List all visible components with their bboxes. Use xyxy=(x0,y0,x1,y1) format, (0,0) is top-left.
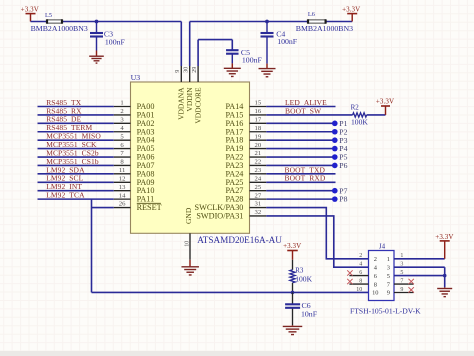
node P4 port dot xyxy=(332,146,338,152)
ground (C6) xyxy=(283,326,303,334)
svg-text:+3.3V: +3.3V xyxy=(376,98,394,106)
U3 right pin names PA14-PA31 xyxy=(195,102,244,220)
U3 left pins 1-8,11-14,26 xyxy=(114,107,131,208)
wire SWCLK net: U3 pin 31 to J4 pin 2 xyxy=(266,208,368,259)
wire net MCP3551_CS1b to U3 pin 8 xyxy=(38,164,114,166)
svg-text:23: 23 xyxy=(255,167,262,174)
svg-text:10: 10 xyxy=(356,287,362,293)
svg-text:LM92 TCA: LM92 TCA xyxy=(46,191,85,200)
svg-text:18: 18 xyxy=(255,125,262,132)
resistor R2 100K xyxy=(353,113,367,117)
U3 top power pins 9,30,29 (VDDANA,VDDIN,VDDCORE) xyxy=(181,66,198,82)
no-connect X on J4 pin 6 xyxy=(347,270,352,275)
svg-text:9: 9 xyxy=(175,70,181,73)
svg-text:BMB2A1000BN3: BMB2A1000BN3 xyxy=(296,24,353,33)
svg-text:8: 8 xyxy=(374,281,377,288)
node P8 port dot xyxy=(332,196,338,202)
svg-text:10nF: 10nF xyxy=(301,310,318,319)
svg-text:GND: GND xyxy=(184,207,193,224)
svg-text:12: 12 xyxy=(119,175,126,182)
svg-text:+3.3V: +3.3V xyxy=(283,242,301,250)
svg-text:24: 24 xyxy=(255,175,262,182)
capacitor C6 10nF xyxy=(292,292,294,326)
svg-text:100nF: 100nF xyxy=(242,55,263,64)
svg-text:15: 15 xyxy=(255,100,262,107)
capacitor C3 100nF xyxy=(96,22,98,57)
svg-text:17: 17 xyxy=(255,117,262,124)
ground (C4) xyxy=(259,69,276,77)
junction node C4 tap xyxy=(265,20,269,24)
ground (C5) xyxy=(224,68,241,76)
node P3 port dot xyxy=(332,137,338,143)
svg-text:R2: R2 xyxy=(351,104,360,112)
junction node J4 pin 5 / ground xyxy=(443,274,447,278)
wire net RS485_TX to U3 pin 1 xyxy=(38,106,114,108)
wire port P6 from U3 xyxy=(266,164,335,166)
wire net MCP3551_CS2b to U3 pin 7 xyxy=(38,156,114,158)
J4 pin 9 no-connect stub xyxy=(394,292,414,294)
svg-text:RESET: RESET xyxy=(137,203,162,212)
power +3.3V (J4 pin 1) xyxy=(435,233,453,259)
node P7 port dot xyxy=(332,188,338,194)
J4 pin 6 no-connect stub xyxy=(349,275,368,277)
U3 left pin numbers xyxy=(119,100,126,208)
wire port P3 from U3 xyxy=(266,139,335,141)
svg-text:100nF: 100nF xyxy=(277,37,298,46)
capacitor C4 100nF xyxy=(266,22,268,69)
svg-text:BMB2A1000BN3: BMB2A1000BN3 xyxy=(31,24,88,33)
junction node C3 tap xyxy=(95,20,99,24)
wire port P7 from U3 xyxy=(266,190,335,192)
wire LED_ALIVE from U3 pin 15 xyxy=(266,106,335,108)
J4 outside pin numbers xyxy=(356,253,403,293)
svg-text:20: 20 xyxy=(255,142,262,149)
wire net LM92_TCA to U3 pin 14 xyxy=(38,198,114,200)
svg-text:FTSH-105-01-L-DV-K: FTSH-105-01-L-DV-K xyxy=(350,306,421,315)
svg-text:30: 30 xyxy=(184,67,190,73)
inductor L6 BMB2A1000BN3 xyxy=(307,19,326,24)
svg-text:L5: L5 xyxy=(45,12,52,19)
wire port P2 from U3 xyxy=(266,131,335,133)
power +3.3V (R2 pull-up) xyxy=(376,98,394,115)
svg-text:100K: 100K xyxy=(351,117,368,126)
ground (U3 pin 10) xyxy=(181,267,199,275)
IC U3 ATSAMD20E16A-AU body xyxy=(131,82,250,233)
svg-text:1: 1 xyxy=(120,100,123,107)
svg-text:2: 2 xyxy=(374,256,377,263)
svg-text:14: 14 xyxy=(119,192,126,199)
svg-text:P6: P6 xyxy=(339,161,347,170)
svg-text:100nF: 100nF xyxy=(105,38,126,47)
wire RESET net bottom horizontal to J4 pin 10 xyxy=(92,291,369,293)
ground (C3) xyxy=(89,56,104,63)
sheet bottom edge band xyxy=(0,351,474,356)
svg-text:10: 10 xyxy=(372,290,378,297)
no-connect X on J4 pin 8 xyxy=(347,279,352,284)
svg-text:22: 22 xyxy=(255,159,262,166)
wire port P4 from U3 xyxy=(266,148,335,150)
wire net LM92_SDA to U3 pin 11 xyxy=(38,173,114,175)
wire port P1 from U3 xyxy=(266,122,335,124)
wire J4 pin 3 to ground xyxy=(394,266,445,268)
svg-text:1: 1 xyxy=(387,256,390,263)
node P6 port dot xyxy=(332,163,338,169)
svg-text:ATSAMD20E16A-AU: ATSAMD20E16A-AU xyxy=(197,235,282,245)
U3 bottom pin 10 GND xyxy=(189,233,191,266)
wire VDDIN vertical drop xyxy=(189,22,191,67)
svg-text:BOOT SW: BOOT SW xyxy=(285,106,322,115)
svg-text:J4: J4 xyxy=(379,242,386,250)
J4 inside pin numbers xyxy=(372,256,391,297)
svg-text:27: 27 xyxy=(255,192,262,199)
wire net LM92_INT to U3 pin 13 xyxy=(38,190,114,192)
svg-text:31: 31 xyxy=(255,201,262,208)
svg-text:19: 19 xyxy=(255,133,262,140)
svg-text:3: 3 xyxy=(387,264,390,271)
svg-text:+3.3V: +3.3V xyxy=(342,5,360,13)
wire net MCP3551_MISO to U3 pin 5 xyxy=(38,139,114,141)
svg-text:BOOT RXD: BOOT RXD xyxy=(285,174,326,183)
J4 pin 8 no-connect stub xyxy=(349,283,368,285)
svg-text:2: 2 xyxy=(120,108,123,115)
svg-text:11: 11 xyxy=(119,167,125,174)
wire net RS485_TERM to U3 pin 4 xyxy=(38,131,114,133)
junction node R3/C6/RESET xyxy=(291,291,295,295)
power +3.3V (R3 pull-up) xyxy=(283,242,301,260)
wire net LM92_SCL to U3 pin 12 xyxy=(38,181,114,183)
svg-text:26: 26 xyxy=(119,201,126,208)
svg-text:L6: L6 xyxy=(308,11,315,18)
wire +3.3V to L5 to VDDANA (top-left horizontal) xyxy=(31,21,182,23)
wire VDDIN to C4 to L6 (top horizontal) xyxy=(190,21,353,23)
wire RESET net vertical (left) xyxy=(91,199,93,292)
svg-text:21: 21 xyxy=(255,150,262,157)
ground (J4 pins 3,5) xyxy=(437,289,452,297)
svg-text:4: 4 xyxy=(359,262,362,268)
wire VDDANA vertical drop xyxy=(180,22,182,67)
wire ground vertical (J4) xyxy=(444,267,446,288)
U3 top pin names VDDANA VDDIN VDDCORE xyxy=(177,87,203,124)
wire port P8 from U3 xyxy=(266,198,335,200)
svg-text:5: 5 xyxy=(387,273,390,280)
U3 left pin names PA00-PA11, RESET xyxy=(137,102,162,212)
wire BOOT_SW from U3 pin 16 to R2 xyxy=(266,114,352,116)
wire J4 pin 5 to ground xyxy=(394,275,445,277)
svg-text:29: 29 xyxy=(192,67,198,73)
svg-text:6: 6 xyxy=(374,273,377,280)
svg-text:32: 32 xyxy=(255,209,262,216)
wire net RS485_RX to U3 pin 2 xyxy=(38,114,114,116)
wire VDDCORE to C5 xyxy=(198,40,232,66)
power +3.3V (top-left, L5 input) xyxy=(21,5,39,21)
wire BOOT_RXD from U3 pin 24 xyxy=(266,181,335,183)
wire BOOT_TXD from U3 pin 23 xyxy=(266,173,335,175)
wire net RS485_DE to U3 pin 3 xyxy=(38,122,114,124)
svg-text:25: 25 xyxy=(255,184,262,191)
svg-text:9: 9 xyxy=(387,290,390,297)
svg-text:10: 10 xyxy=(184,241,190,247)
wire R2 to +3.3V xyxy=(367,114,386,116)
node P2 port dot xyxy=(332,129,338,135)
connector J4 body xyxy=(369,251,395,301)
wire J4 pin 1 to +3.3V xyxy=(394,258,445,260)
inductor L5 BMB2A1000BN3 xyxy=(46,19,62,24)
svg-text:P8: P8 xyxy=(339,195,347,204)
no-connect X on J4 pin 7 xyxy=(409,279,414,284)
svg-text:SWDIO/PA31: SWDIO/PA31 xyxy=(196,211,243,220)
node P5 port dot xyxy=(332,154,338,160)
U3 right pin numbers xyxy=(255,100,262,216)
wire port P5 from U3 xyxy=(266,156,335,158)
U3 right pins 15-25,27,31,32 xyxy=(250,107,267,216)
svg-text:+3.3V: +3.3V xyxy=(435,233,453,241)
capacitor C5 100nF xyxy=(231,54,233,69)
wire SWDIO net: U3 pin 32 to J4 pin 4 xyxy=(266,216,368,267)
svg-text:16: 16 xyxy=(255,108,262,115)
J4 pin 7 no-connect stub xyxy=(394,283,414,285)
wire net MCP3551_SCK to U3 pin 6 xyxy=(38,148,114,150)
svg-text:2: 2 xyxy=(359,253,362,259)
no-connect X on J4 pin 9 xyxy=(409,287,414,292)
svg-text:VDDCORE: VDDCORE xyxy=(193,87,202,124)
svg-text:+3.3V: +3.3V xyxy=(21,5,39,13)
svg-text:U3: U3 xyxy=(131,73,141,82)
svg-text:100K: 100K xyxy=(295,274,312,283)
wire RESET net: U3 pin 26 left segment xyxy=(92,207,114,209)
svg-text:13: 13 xyxy=(119,184,126,191)
svg-text:R3: R3 xyxy=(295,266,304,274)
node P1 port dot xyxy=(332,121,338,127)
U3 top pin numbers 9 30 29 xyxy=(175,67,198,73)
power +3.3V (top-right, L6 output) xyxy=(342,5,360,21)
resistor R3 100K xyxy=(290,260,295,293)
